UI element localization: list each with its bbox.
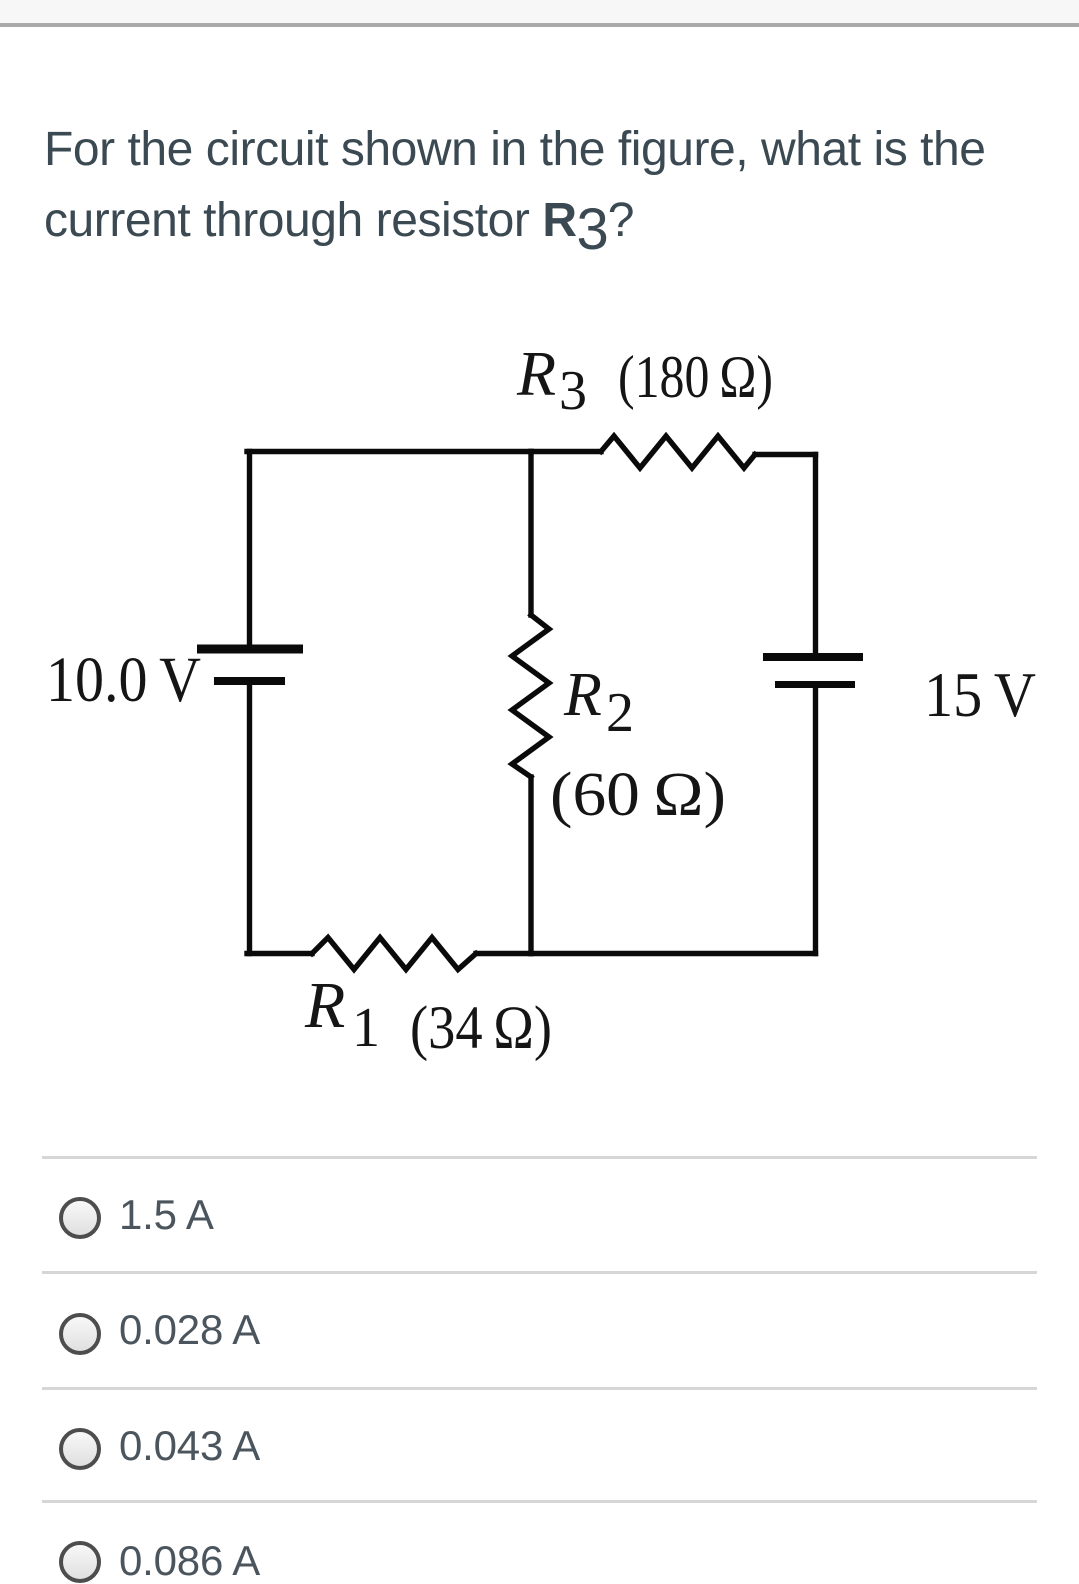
wire bottom rail left (247, 951, 312, 956)
battery B1 (10.0 V) bottom plate (214, 677, 285, 685)
resistor R2 zigzag (512, 615, 549, 777)
wire right rail upper (813, 455, 818, 655)
svg-text:1: 1 (352, 997, 380, 1059)
svg-text:2: 2 (606, 682, 634, 744)
question text (44, 114, 1054, 265)
answer option dividers (42, 1156, 1037, 1159)
wire bottom rail right (R1 end to bottom-right corner) (476, 951, 816, 956)
radio buttons (59, 1197, 101, 1239)
battery B1 (10.0 V) top plate (197, 645, 303, 654)
svg-text:3: 3 (559, 360, 587, 422)
wire left rail lower (247, 684, 252, 954)
option texts (119, 1194, 214, 1236)
wire top rail left (left corner to R3 start) (247, 449, 601, 454)
wire middle rail lower (528, 777, 533, 954)
svg-text:(180 Ω): (180 Ω) (618, 344, 773, 410)
svg-text:R: R (304, 969, 345, 1042)
resistor R3 zigzag (601, 436, 755, 468)
wire middle rail upper (528, 452, 533, 616)
svg-text:(34 Ω): (34 Ω) (410, 995, 552, 1062)
svg-text:(60 Ω): (60 Ω) (550, 761, 726, 829)
svg-text:R: R (563, 661, 602, 729)
svg-text:15 V: 15 V (924, 659, 1036, 730)
circuit figure (0, 330, 1079, 1070)
node junction middle-top (R2 branch tap) (528, 449, 533, 455)
wire right rail lower (813, 687, 818, 954)
wire left rail upper (247, 452, 252, 647)
node junction middle-bottom (R2 branch tap) (528, 951, 533, 956)
top bar (0, 0, 1079, 27)
battery B2 (15 V) bottom plate (775, 681, 855, 688)
resistor R1 zigzag (312, 938, 476, 970)
battery B2 (15 V) top plate (763, 653, 863, 661)
wire top rail right (R3 to top-right corner) (755, 452, 816, 457)
svg-text:R: R (516, 338, 556, 409)
svg-text:10.0 V: 10.0 V (46, 644, 201, 716)
